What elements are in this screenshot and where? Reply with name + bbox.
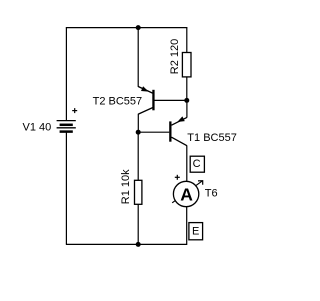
- wire left lower: [65, 132, 67, 245]
- resistor R2: [182, 53, 191, 77]
- svg-text:E: E: [192, 226, 199, 238]
- wire top rail: [66, 27, 187, 29]
- wire R1 bottom: [137, 204, 139, 244]
- wire T1 emitter stub: [186, 100, 188, 117]
- transistor T1: [169, 116, 187, 145]
- ammeter T6 arrow overlay: [172, 181, 203, 203]
- wire ammeter bottom: [186, 207, 188, 246]
- svg-text:R2 120: R2 120: [169, 39, 181, 74]
- wire bottom rail: [66, 243, 187, 245]
- terminal box E: [189, 223, 203, 240]
- node junction right: [184, 98, 189, 103]
- wire T1 collector stub: [186, 146, 188, 183]
- wire T2 collector stub: [137, 114, 139, 133]
- wire left upper: [65, 27, 67, 120]
- svg-text:T6: T6: [205, 187, 218, 199]
- svg-text:T2 BC557: T2 BC557: [93, 96, 143, 108]
- node junction top: [136, 25, 141, 30]
- wire R2 bottom to node: [186, 77, 188, 101]
- node junction bottom: [136, 242, 141, 247]
- resistor R1: [135, 180, 142, 204]
- wire R1 top: [137, 132, 139, 180]
- wire right top to R2: [186, 27, 188, 52]
- battery plus polarity mark: [72, 108, 77, 113]
- svg-text:R1 10k: R1 10k: [120, 169, 132, 204]
- battery V1: [57, 121, 76, 132]
- node junction middle: [136, 130, 141, 135]
- ammeter plus polarity mark: [175, 175, 180, 180]
- ammeter T6: [173, 181, 198, 206]
- svg-text:T1 BC557: T1 BC557: [187, 132, 237, 144]
- svg-text:A: A: [180, 184, 193, 204]
- terminal box C: [190, 156, 204, 172]
- transistor T2: [138, 86, 187, 114]
- svg-text:V1 40: V1 40: [23, 121, 52, 133]
- wire T1 base lead: [138, 131, 169, 133]
- wire middle vertical top: [137, 28, 139, 87]
- svg-text:C: C: [193, 158, 201, 170]
